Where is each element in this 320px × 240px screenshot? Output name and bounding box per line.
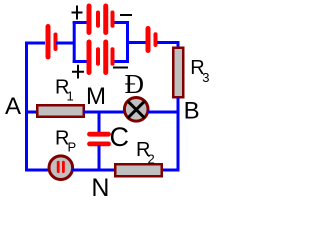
minus sign top-right of bank	[120, 14, 132, 16]
wire bank top row right stub	[114, 21, 130, 24]
lamp D filament cross	[129, 102, 144, 117]
svg-text:2: 2	[148, 151, 155, 166]
svg-text:C: C	[110, 122, 130, 152]
wire node A stub	[28, 111, 38, 114]
battery bank bottom cell1 long plate	[87, 42, 92, 73]
svg-text:A: A	[5, 93, 21, 120]
wire R1 to lamp (through node M)	[83, 111, 125, 114]
plus sign top-left of bank	[72, 6, 83, 20]
battery bank bottom cell1 short plate	[96, 49, 100, 64]
rheostat Rp plates	[58, 162, 63, 172]
capacitor C bottom plate	[90, 141, 109, 146]
battery B1 long plate	[46, 27, 51, 58]
rheostat Rp circle	[49, 156, 73, 180]
svg-text:N: N	[91, 174, 109, 202]
minus sign bottom-right of bank	[113, 67, 128, 69]
battery B1 short plate	[54, 35, 58, 50]
svg-text:M: M	[86, 83, 106, 110]
wire bank bottom row left stub	[73, 60, 88, 63]
wire battery B1 to bank left bracket	[56, 42, 76, 45]
capacitor C top plate	[90, 132, 109, 137]
plus sign bottom-left of bank	[72, 65, 84, 79]
battery B2 short plate	[154, 34, 158, 45]
resistor R1	[37, 105, 84, 117]
battery bank bottom cell2 long plate	[103, 42, 108, 73]
svg-text:3: 3	[202, 70, 209, 85]
wire R3 bottom through node B down to bottom-right corner	[161, 97, 178, 170]
resistor R2	[115, 164, 162, 176]
wire bank to battery B2	[126, 41, 146, 44]
battery bank top cell1 short plate	[96, 13, 100, 26]
wire bank left bracket vertical	[73, 21, 76, 63]
wire bank top row left stub	[73, 21, 88, 24]
svg-text:B: B	[184, 98, 200, 125]
svg-text:Đ: Đ	[125, 69, 145, 99]
wire battery B2 to resistor R3 top	[157, 43, 178, 49]
wire lamp to node B	[148, 111, 177, 114]
battery bank top cell2 short plate	[111, 13, 115, 26]
wire capacitor to node N	[98, 145, 101, 171]
battery B2 long plate	[146, 29, 151, 51]
wire bank bottom row right stub	[114, 60, 130, 63]
battery bank top cell1 long plate	[87, 6, 92, 33]
svg-text:P: P	[68, 140, 77, 155]
wire bank right bracket vertical	[126, 21, 129, 63]
battery bank top cell2 long plate	[103, 6, 108, 33]
resistor R3	[173, 48, 183, 98]
wire left branch: top-left corner, left vertical, to rheostat	[27, 43, 50, 170]
svg-text:1: 1	[67, 88, 74, 103]
battery bank bottom cell2 short plate	[111, 49, 115, 64]
lamp D	[124, 98, 148, 122]
wire rheostat to R2 (through node N)	[72, 169, 116, 172]
wire node M drop to capacitor	[98, 112, 101, 133]
